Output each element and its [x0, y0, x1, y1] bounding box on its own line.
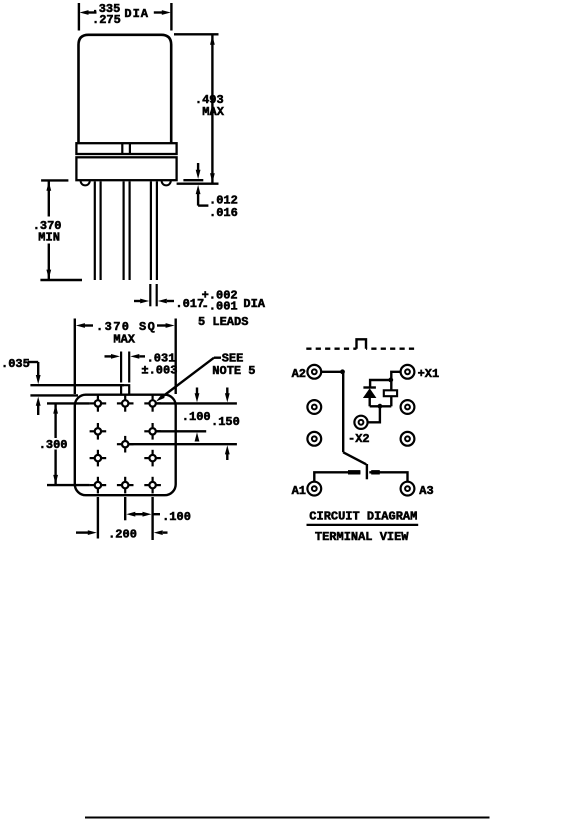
terminal right mid upper: [401, 400, 415, 414]
terminal hole (152.6,485.1): [144, 477, 161, 494]
svg-text:MAX: MAX: [113, 332, 135, 346]
bottom lead/extension line middle: [124, 497, 126, 520]
dim .335/.275 DIA extension line left: [78, 3, 80, 31]
svg-text:.200: .200: [108, 528, 137, 542]
index tab reference dashed line right: [366, 348, 414, 350]
index tab reference dashed line left: [306, 348, 356, 350]
svg-text:-.001: -.001: [202, 299, 238, 313]
lead 3: [150, 181, 152, 280]
terminal A2: [307, 365, 321, 379]
terminal hole (125.2,403.4): [117, 395, 134, 412]
resistor R1 bottom wire: [390, 396, 392, 406]
terminal left mid upper: [307, 400, 321, 414]
svg-text:+X1: +X1: [418, 367, 440, 381]
index tab bump: [357, 339, 367, 348]
junction dot A2 wire: [340, 369, 345, 374]
flange bottom extension line (.012 upper reference): [183, 179, 203, 181]
svg-text:.100: .100: [182, 410, 211, 424]
title underline: [307, 524, 419, 526]
dim .200 left arrow: [76, 531, 90, 533]
terminal -X2: [354, 416, 367, 429]
footer rule: [85, 817, 490, 819]
wire to -X2 terminal: [368, 406, 380, 422]
svg-text:.017: .017: [175, 297, 204, 311]
wire A3 to fixed contact: [369, 472, 407, 481]
bottom lead/extension line left: [97, 497, 99, 539]
svg-text:A3: A3: [419, 484, 433, 498]
dim .335/.275 DIA extension line right: [170, 3, 172, 31]
seam tick marks on upper band: [121, 143, 123, 154]
junction dot +X1 branch: [388, 378, 393, 383]
dim .370 MIN dimension line + arrows: [48, 180, 50, 216]
dim .031 right arrow: [130, 354, 139, 359]
svg-text:-X2: -X2: [348, 432, 370, 446]
square top extension line: [30, 394, 78, 396]
bottom wire diode/resistor join: [370, 405, 392, 407]
svg-text:A1: A1: [292, 484, 306, 498]
hole row0 right extension line: [157, 402, 237, 404]
dim .012/.016 lower arrow and leader: [196, 185, 201, 194]
resistor R1 body: [384, 390, 397, 396]
svg-text:5 LEADS: 5 LEADS: [198, 315, 248, 329]
diode CR1 cathode bar: [363, 386, 376, 388]
terminal hole (97.9,485.1): [90, 477, 107, 494]
dim .150: lower arrow: [225, 445, 230, 454]
svg-text:±.003: ±.003: [141, 364, 177, 378]
svg-text:.016: .016: [209, 206, 238, 220]
terminal A3: [401, 482, 415, 496]
terminal hole (97.9,403.4): [90, 395, 107, 412]
terminal hole (97.9,431.3): [90, 423, 107, 440]
flange lower band: [76, 157, 176, 180]
svg-text:TERMINAL VIEW: TERMINAL VIEW: [315, 530, 409, 544]
terminal left mid lower: [307, 432, 321, 446]
terminal +X1: [401, 365, 415, 379]
fixed contact left: [348, 470, 360, 474]
diode CR1 triangle: [363, 388, 377, 398]
svg-text:MAX: MAX: [202, 105, 224, 119]
dim .200 right arrow: [154, 530, 163, 535]
hole row1 right extension line: [157, 430, 207, 432]
lead seal circle right: [162, 176, 171, 185]
svg-text:.150: .150: [211, 415, 240, 429]
dim .017 left arrow: [134, 300, 142, 302]
wire junction to diode: [370, 380, 391, 388]
dim .012/.016 upper arrow: [197, 163, 199, 171]
terminal hole center (125.2,444.2): [117, 436, 134, 453]
dim .493 top extension line: [174, 33, 219, 35]
lead seal circle left: [81, 176, 90, 185]
wire A1 to fixed contact: [314, 472, 360, 481]
hole row2 (center) right extension line: [129, 443, 237, 445]
terminal hole (152.6,458.1): [144, 450, 161, 467]
dim .370 SQ arrows: [76, 323, 85, 328]
terminal hole (152.6,431.3): [144, 423, 161, 440]
svg-text:NOTE 5: NOTE 5: [212, 364, 255, 378]
dim .370 MIN top extension line: [41, 179, 68, 181]
terminal hole (152.6,403.4): [144, 395, 161, 412]
terminal hole (125.2,485.1): [117, 477, 134, 494]
dim .031 extension lines: [120, 352, 122, 383]
wire A2 to armature: [321, 371, 343, 373]
terminal right mid lower: [401, 432, 415, 446]
svg-text:.275: .275: [92, 13, 121, 27]
svg-text:DIA: DIA: [124, 7, 149, 21]
dim .100 right: lower arrow: [195, 432, 200, 441]
svg-text:.035: .035: [1, 357, 30, 371]
seating plane line right segment: [177, 182, 219, 184]
index tab on square: [121, 385, 129, 395]
dim .100 right: upper arrow: [196, 388, 198, 394]
dim .335 right arrow: [162, 10, 171, 15]
lead 1: [94, 181, 96, 280]
tab top extension line: [30, 384, 124, 386]
SEE NOTE 5 leader arrow: [214, 357, 221, 359]
hole row0 left extension line: [47, 402, 90, 404]
bottom lead/extension line right: [151, 497, 153, 540]
resistor R1 top wire: [390, 380, 392, 390]
dim .300 dimension line + arrows: [54, 404, 56, 438]
lead 2: [122, 181, 124, 280]
flange upper band: [76, 143, 176, 154]
dim .150: upper arrow: [226, 388, 228, 394]
svg-text:.100: .100: [162, 510, 191, 524]
svg-text:A2: A2: [292, 367, 306, 381]
svg-text:.300: .300: [39, 438, 68, 452]
dim .370 SQ extension lines: [74, 319, 76, 395]
can body outline: [79, 35, 172, 143]
dim .493 dimension line: [211, 34, 213, 183]
dim .370 MIN bottom line: [40, 279, 82, 281]
svg-text:CIRCUIT DIAGRAM: CIRCUIT DIAGRAM: [309, 509, 417, 523]
terminal hole (97.9,458.1): [90, 450, 107, 467]
junction dot to -X2: [378, 404, 383, 409]
dim .017 right arrow + leader: [158, 299, 167, 304]
dim .335 left arrow: [80, 10, 89, 15]
dim .035 lower arrow: [36, 397, 41, 406]
diode anode stem: [369, 398, 371, 406]
armature slant: [343, 452, 366, 464]
dim .017 extension lines: [149, 284, 151, 306]
svg-text:MIN: MIN: [38, 231, 60, 245]
terminal square outline: [75, 395, 176, 496]
terminal A1: [307, 482, 321, 496]
dim .031 left arrow: [105, 355, 113, 357]
svg-text:DIA: DIA: [243, 297, 265, 311]
fixed contact right: [371, 470, 380, 474]
contact blade: [366, 464, 368, 479]
dim .100 bottom arrows: [126, 512, 135, 517]
wire +X1: [391, 372, 400, 380]
hole row4 left extension line: [47, 484, 90, 486]
